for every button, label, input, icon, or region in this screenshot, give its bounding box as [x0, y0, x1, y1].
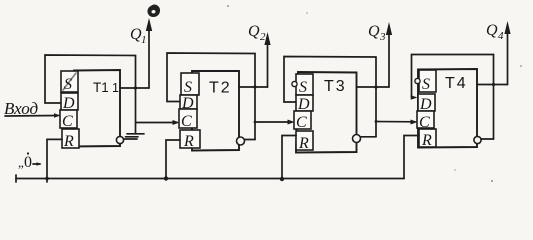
node junction R3/bus [280, 177, 284, 181]
ground mark bars [127, 133, 144, 135]
wire Q4 riser and arrow [507, 25, 509, 85]
svg-text:T3: T3 [324, 78, 347, 95]
pin R (T2) [180, 130, 200, 148]
wire Q2 riser and arrow [267, 36, 269, 87]
flip-flop T2 body [192, 71, 239, 151]
pin C (T2) [179, 109, 197, 128]
decorative blob above Q1 [147, 5, 160, 17]
flip-flop T1 body [70, 70, 120, 147]
wire R of T4 to bus [404, 136, 419, 179]
node junction frame/Q4 line [492, 83, 495, 86]
svg-text:S: S [64, 76, 72, 93]
svg-text:1: 1 [112, 81, 119, 95]
wire bottom reset bus [16, 178, 404, 180]
svg-text:Q: Q [248, 23, 260, 40]
pin R (T4) [419, 129, 436, 147]
svg-text:C: C [62, 113, 73, 130]
pin D (T1) [61, 93, 78, 110]
wire C line T2->T3 [255, 121, 292, 123]
svg-text:R: R [421, 132, 432, 149]
wire from bubble T4 [481, 138, 493, 140]
svg-text:4: 4 [498, 30, 504, 42]
wire frame vertical T3 [375, 57, 377, 137]
wire frame vertical T2 (crosses Q line, to bubble wire) [254, 54, 256, 140]
paper background [0, 0, 533, 191]
wire C line T1->T2 [136, 122, 178, 124]
svg-text:C: C [296, 114, 307, 131]
wire C line T3->T4 [376, 121, 415, 123]
bubble on S input T3 [292, 81, 297, 86]
pin D (T3) [296, 95, 313, 111]
node junction R2/bus [164, 176, 168, 180]
pin S (T4) [419, 70, 436, 92]
wire from bubble T1 [124, 138, 137, 140]
node junction frame/Q1 line [134, 86, 137, 89]
pin S (T1) [61, 71, 78, 92]
bus end tick [15, 175, 17, 182]
svg-text:S: S [184, 79, 192, 96]
svg-text:T1: T1 [93, 80, 109, 95]
pin S (T2) [181, 73, 199, 95]
wire Q4 output [477, 84, 508, 86]
feedback frame wire T4 [412, 55, 494, 98]
wire frame vertical T4 (to bubble wire) [493, 55, 495, 140]
wire from bubble T2 [245, 139, 255, 141]
svg-text:C: C [181, 113, 192, 130]
wire Q3 riser and arrow [388, 26, 390, 87]
inverted output bubble T3 [353, 135, 361, 143]
pin R (T1) [62, 129, 79, 148]
pin D (T4) [418, 94, 435, 111]
node tee C line T2 [254, 121, 257, 124]
svg-text:Q: Q [486, 22, 498, 39]
feedback frame wire T2 [167, 53, 255, 102]
inverted output bubble T4 [474, 136, 481, 143]
pin R (T3) [296, 131, 313, 150]
wire Q3 output [357, 86, 390, 88]
wire frame vertical below Q line (to ground mark) [135, 88, 137, 134]
feedback frame wire T1 (Q to D) [45, 55, 136, 103]
svg-text:R: R [298, 135, 309, 152]
svg-text:S: S [422, 76, 430, 93]
wire Q1 riser and arrow [148, 24, 150, 88]
svg-text:1: 1 [141, 34, 147, 46]
arrow of „0" [33, 163, 40, 165]
pin D (T2) [180, 95, 197, 109]
inverted output bubble T2 [237, 137, 245, 145]
node tee C line T3 [375, 120, 378, 123]
pin C (T3) [294, 111, 311, 129]
pin C (T1) [60, 110, 77, 128]
wire Q1 output [120, 87, 149, 89]
svg-text:T4: T4 [445, 75, 468, 92]
wire from bubble T3 [361, 136, 376, 138]
scan speckles [227, 5, 229, 7]
svg-text:0: 0 [24, 154, 32, 171]
wire Вход to C [5, 115, 58, 118]
svg-text:Q: Q [368, 23, 380, 40]
inverted output bubble T1 [116, 136, 123, 143]
node junction R1/bus [45, 177, 49, 181]
node junction frame/Q3 line [374, 85, 377, 88]
wire R of T2 to bus [166, 140, 180, 179]
wire R of T1 to bus [47, 139, 62, 182]
flip-flop T4 body [418, 69, 477, 148]
pin C (T4) [417, 111, 434, 128]
svg-text:3: 3 [379, 31, 386, 43]
feedback frame wire T3 [284, 57, 376, 103]
bubble on S input T4 [415, 78, 420, 83]
svg-text:R: R [63, 133, 74, 150]
wire R of T3 to bus [282, 136, 296, 180]
wire Q2 output [239, 86, 268, 88]
svg-text:S: S [299, 79, 307, 96]
svg-text:2: 2 [260, 31, 266, 43]
svg-text:T2: T2 [209, 80, 232, 97]
node junction frame/Q2 line [253, 85, 256, 88]
pin S (T3) [296, 74, 313, 95]
flip-flop T3 body [296, 72, 357, 153]
svg-text:R: R [183, 133, 194, 150]
